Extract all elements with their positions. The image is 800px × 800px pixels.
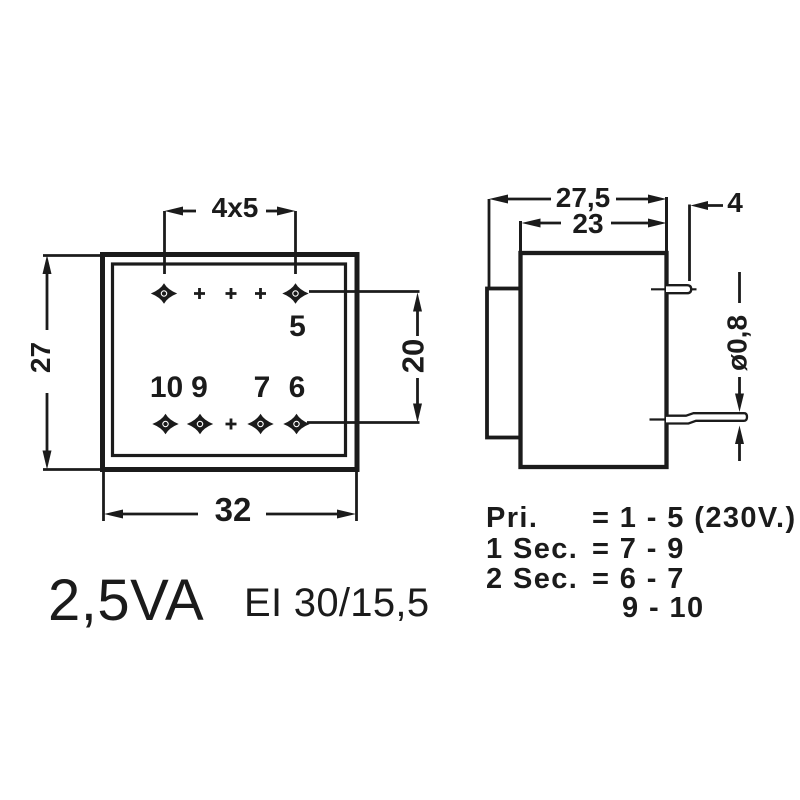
- dimension 32: dimension line left segment: [122, 513, 198, 516]
- dimension 27,5 and 23: right extension line (above body): [665, 197, 668, 253]
- svg-text:= 6 - 7: = 6 - 7: [592, 563, 685, 595]
- pin 6 pad (bottom row): [283, 414, 309, 434]
- svg-text:2,5VA: 2,5VA: [48, 568, 204, 633]
- dimension 4x5: left arrowhead: [165, 207, 184, 216]
- svg-text:1 Sec.: 1 Sec.: [486, 533, 578, 565]
- svg-text:10: 10: [150, 371, 183, 404]
- dimension 27: top extension line: [43, 254, 103, 257]
- dimension 32: right arrowhead: [337, 510, 356, 519]
- dimension 27,5: dimension line left segment: [506, 198, 551, 201]
- pin 5 pad (top row right): [282, 283, 308, 303]
- dimension 4: extension line at pin tip: [688, 205, 691, 282]
- dimension 4x5: extension line from pin 5: [294, 211, 297, 274]
- dimension 27: dimension line upper segment: [46, 273, 49, 330]
- svg-text:23: 23: [572, 208, 603, 239]
- pin 1 pad (top row left): [151, 283, 177, 303]
- transformer side-view mounting flange outline: [487, 289, 521, 438]
- dimension 27,5: right arrowhead: [648, 195, 667, 204]
- dimension 32: dimension line right segment: [266, 513, 338, 516]
- dimension 23: left extension line (above body): [519, 221, 522, 253]
- dimension 20: dimension line lower segment: [416, 378, 419, 404]
- dimension ø0,8: lower reference line: [738, 443, 741, 461]
- svg-text:4: 4: [727, 187, 743, 218]
- dimension 4x5: dimension line right segment: [266, 210, 279, 213]
- dimension 4: arrowhead: [691, 201, 709, 210]
- side-view lower pin centreline: [650, 418, 674, 420]
- dimension 27: dimension line lower segment: [46, 393, 49, 451]
- unused hole mark (top row, pos 4): [255, 288, 266, 299]
- unused hole mark (top row, pos 2): [194, 288, 205, 299]
- pin 10 pad (bottom row): [152, 414, 178, 434]
- dimension 23: left arrowhead: [522, 219, 541, 228]
- svg-text:2 Sec.: 2 Sec.: [486, 563, 578, 595]
- svg-text:27: 27: [25, 342, 56, 373]
- dimension 4x5: extension line from pin 1: [163, 211, 166, 274]
- svg-text:= 1 - 5 (230V.): = 1 - 5 (230V.): [592, 502, 797, 534]
- dimension 27,5: dimension line right segment: [616, 198, 650, 201]
- dimension 27: bottom arrowhead: [43, 451, 52, 470]
- side-view lower pin outline (with crank): [666, 413, 747, 423]
- dimension ø0,8: bottom arrowhead (points to pin bottom): [735, 426, 744, 445]
- dimension 20: extension line from pin 5: [309, 290, 420, 293]
- dimension 20: top arrowhead: [413, 293, 422, 312]
- dimension 27: top arrowhead: [43, 255, 52, 274]
- side-view upper pin centreline: [651, 288, 697, 290]
- dimension 4: leader line: [706, 204, 723, 207]
- dimension 23: dimension line right segment: [611, 222, 650, 225]
- svg-text:EI 30/15,5: EI 30/15,5: [244, 581, 429, 625]
- transformer top-view inner body outline: [113, 264, 346, 456]
- dimension ø0,8: top arrowhead (points to pin top): [735, 394, 744, 413]
- dimension 32: left extension line: [102, 470, 105, 522]
- dimension 4x5: right arrowhead: [277, 207, 296, 216]
- svg-text:7: 7: [254, 371, 271, 404]
- side-view upper pin outline: [666, 285, 691, 293]
- dimension 23: dimension line left segment: [539, 222, 561, 225]
- svg-text:5: 5: [289, 310, 306, 343]
- unused hole mark (top row, pos 3): [226, 288, 237, 299]
- dimension 32: left arrowhead: [104, 510, 123, 519]
- transformer side-view body outline: [521, 253, 667, 467]
- dimension 20: bottom arrowhead: [413, 404, 422, 423]
- dimension 27,5: left arrowhead: [489, 195, 508, 204]
- dimension 32: right extension line: [355, 470, 358, 522]
- dimension 20: dimension line upper segment: [416, 311, 419, 336]
- dimension ø0,8: line above top arrow: [738, 377, 741, 394]
- dimension 4x5: dimension line left segment: [182, 210, 196, 213]
- dimension 20: extension line from pin 6: [307, 421, 420, 424]
- svg-text:Pri.: Pri.: [486, 502, 538, 534]
- dimension 23: right arrowhead: [648, 219, 667, 228]
- dimension 27,5: left extension line (above flange): [488, 199, 491, 289]
- pin 9 pad (bottom row): [187, 414, 213, 434]
- svg-text:= 7 - 9: = 7 - 9: [592, 533, 685, 565]
- svg-text:9 - 10: 9 - 10: [622, 592, 705, 624]
- svg-text:ø0,8: ø0,8: [722, 315, 753, 371]
- dimension ø0,8: upper reference line: [738, 272, 741, 303]
- dimension 27: bottom extension line: [43, 468, 103, 471]
- svg-text:9: 9: [191, 371, 208, 404]
- svg-text:20: 20: [396, 339, 431, 373]
- pin 7 pad (bottom row): [247, 414, 273, 434]
- transformer top-view outer body outline: [103, 255, 358, 470]
- svg-text:4x5: 4x5: [212, 192, 259, 223]
- svg-text:32: 32: [215, 491, 252, 528]
- svg-text:6: 6: [289, 371, 306, 404]
- unused hole mark (bottom row centre): [226, 419, 237, 430]
